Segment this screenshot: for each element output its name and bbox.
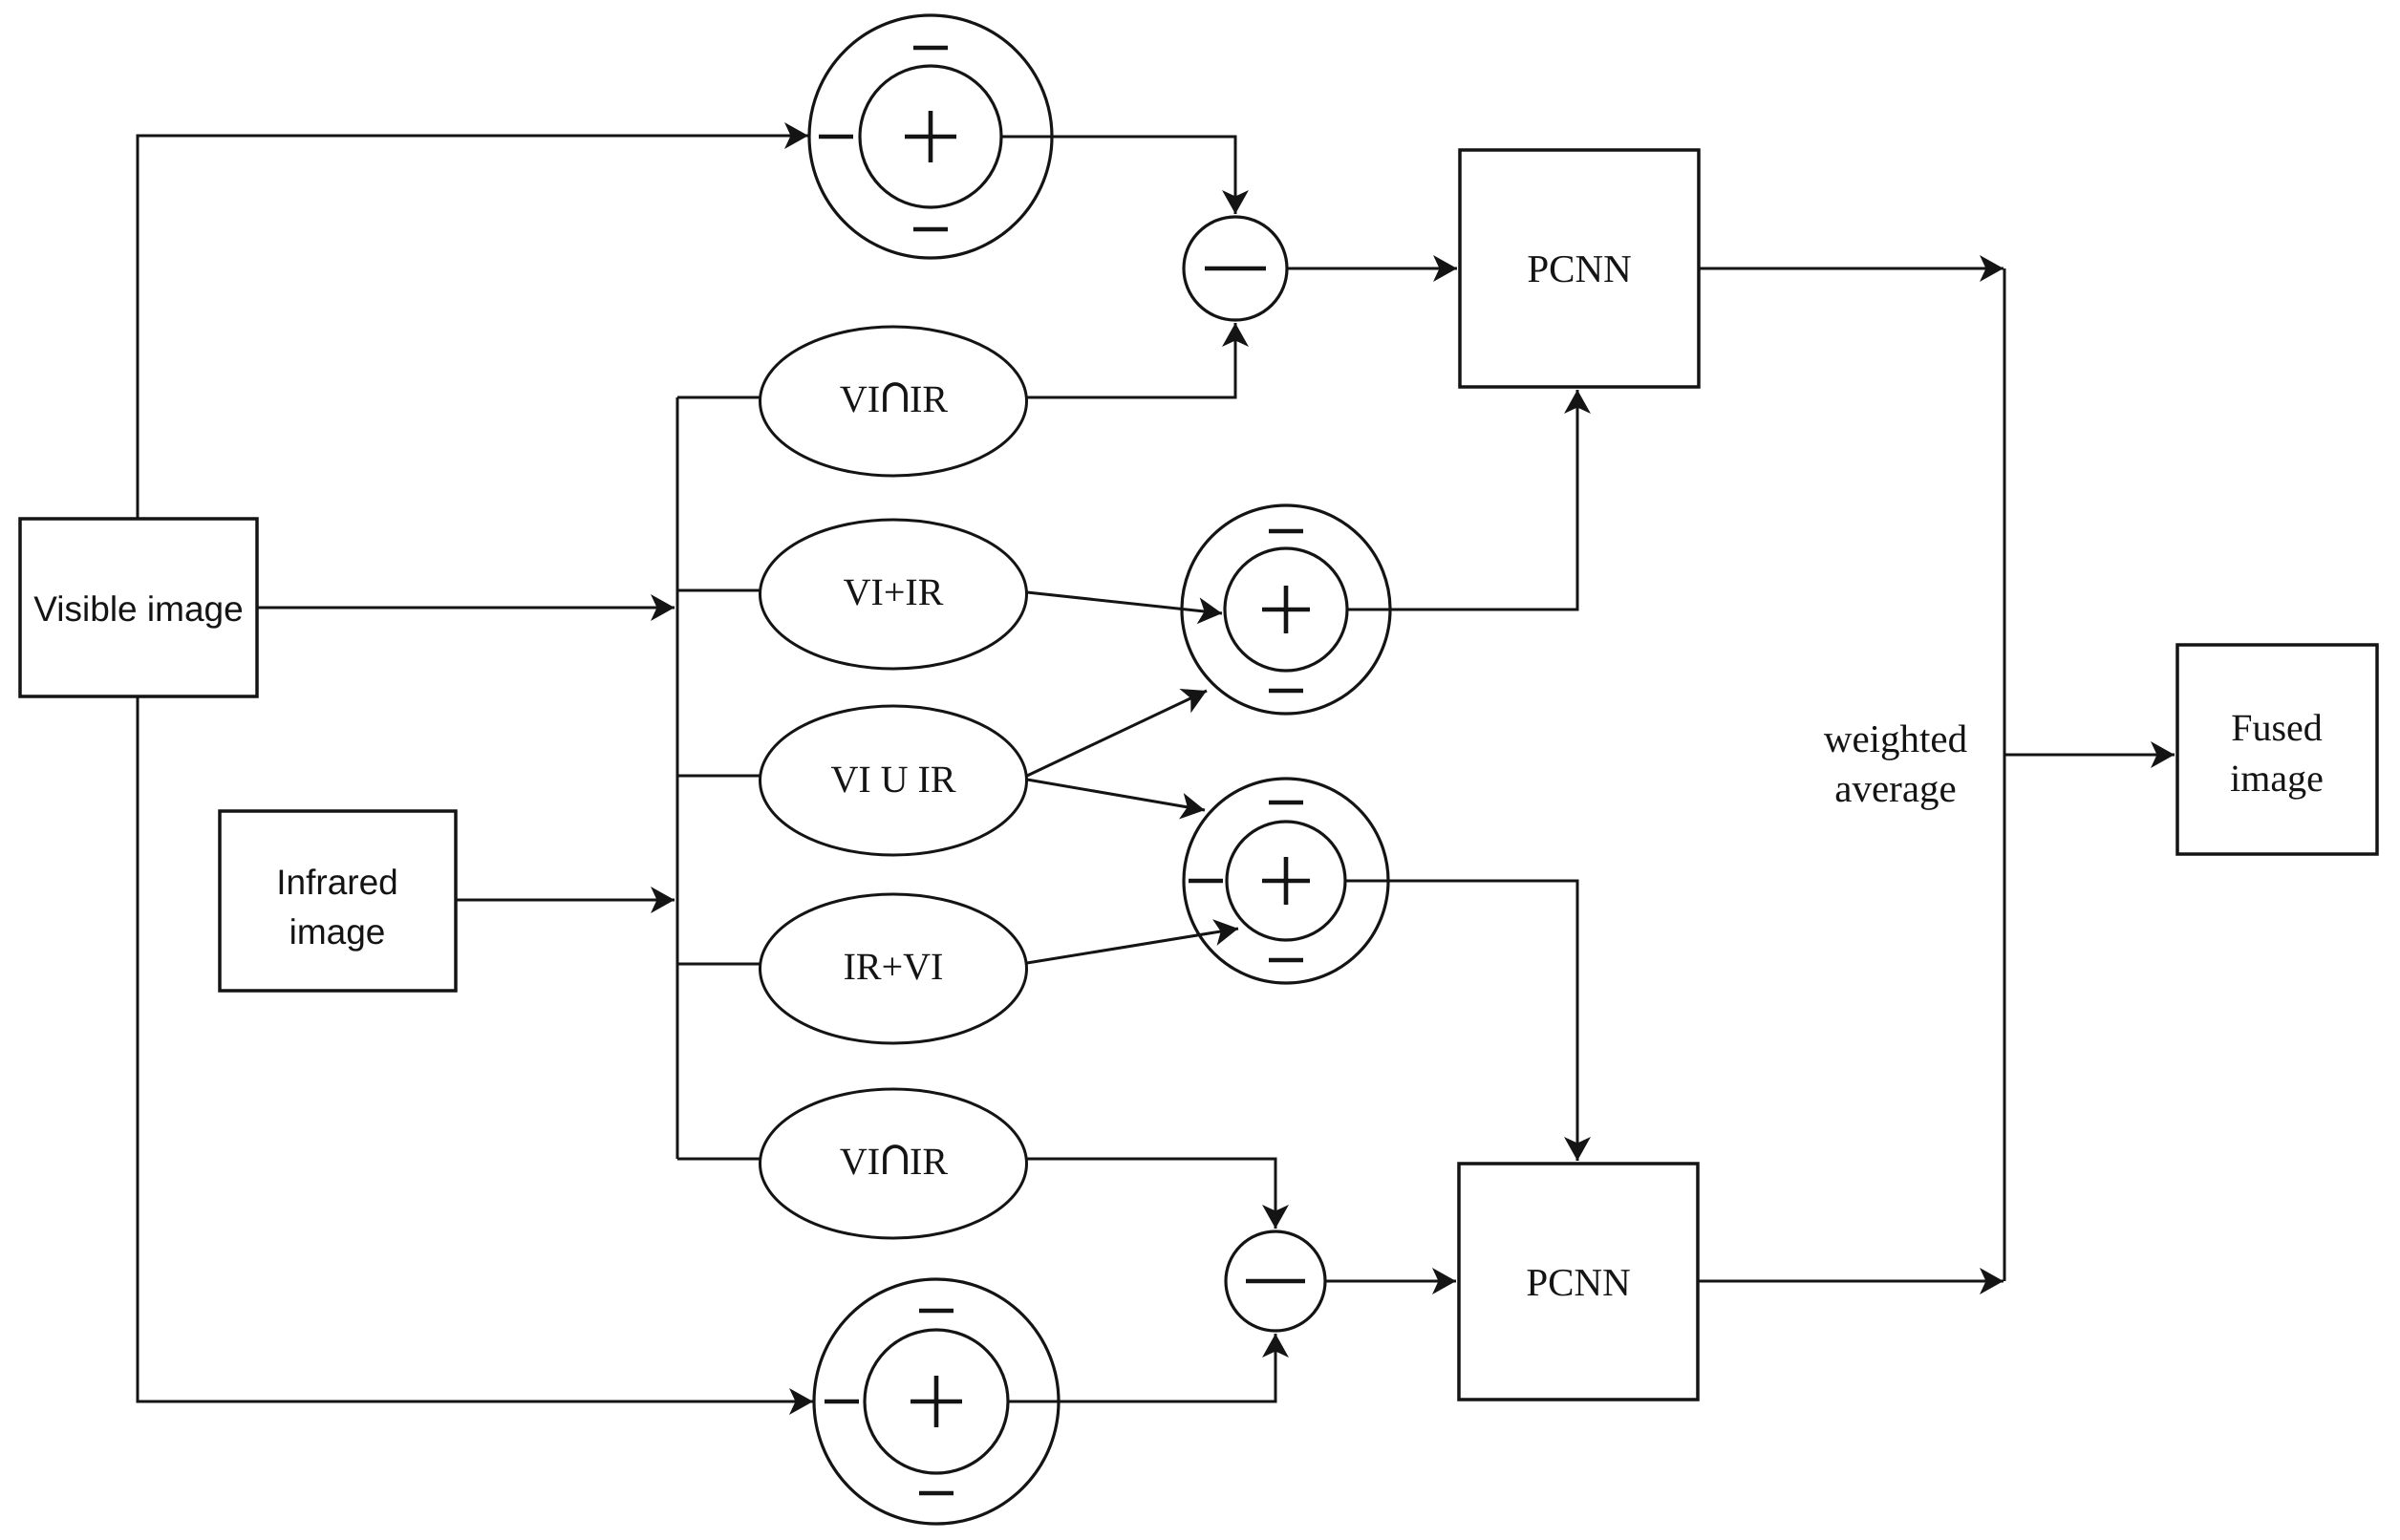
wire: distributor vertical line [676, 397, 679, 1159]
S3 minus top [1269, 801, 1303, 805]
wire: S1 output to subtractor D1 top [1001, 137, 1235, 214]
svg-text:Infrared: Infrared [276, 863, 398, 902]
wire: Visible image bottom branch to summing circle S4 [138, 696, 813, 1401]
svg-text:VI: VI [840, 377, 880, 420]
wire: stub to ellipse E4 [677, 963, 761, 966]
svg-text:PCNN: PCNN [1527, 246, 1631, 290]
ellipse E1 VI∩IR (top) [761, 327, 1027, 476]
S2 inner circle [1225, 548, 1347, 671]
D1 minus sign [1205, 267, 1266, 271]
wire: E4 to S3 [1027, 929, 1238, 963]
svg-text:Visible image: Visible image [33, 589, 243, 629]
wire: E5 to subtractor D2 top [1027, 1159, 1275, 1229]
summing junction S1 (top, VI path) outer circle [809, 15, 1052, 258]
S4 minus bottom [919, 1491, 954, 1496]
S3 plus sign [1262, 857, 1310, 905]
summing junction S4 (bottom, VI path) outer circle [814, 1279, 1059, 1524]
S2 plus sign [1262, 586, 1310, 633]
svg-text:IR+VI: IR+VI [844, 945, 944, 988]
wire: D1 to PCNN U1 [1287, 267, 1457, 270]
svg-text:image: image [2230, 757, 2324, 800]
svg-text:IR: IR [910, 1140, 948, 1183]
S3 minus left [1189, 879, 1223, 884]
summing junction S2 (middle upper) outer circle [1182, 505, 1390, 714]
svg-text:PCNN: PCNN [1526, 1260, 1630, 1304]
D2 minus sign [1246, 1279, 1305, 1284]
summing junction S3 (middle lower) outer circle [1184, 779, 1388, 983]
wire: D2 to PCNN U2 [1325, 1280, 1456, 1283]
wire: stub to ellipse E1 [677, 396, 760, 399]
svg-text:Fused: Fused [2231, 706, 2323, 749]
wire: S3 output to PCNN U2 top [1345, 881, 1577, 1161]
S2 minus bottom [1269, 689, 1303, 694]
S3 minus bottom [1269, 958, 1303, 963]
svg-text:average: average [1834, 766, 1956, 810]
svg-text:VI: VI [840, 1140, 880, 1183]
svg-text:image: image [289, 912, 386, 952]
ellipse E3 VI U IR [761, 706, 1027, 855]
S1 minus left [819, 135, 853, 139]
wire: Visible image top branch to summing circle S1 [138, 136, 808, 519]
PCNN box U1 [1460, 150, 1699, 387]
S4 inner circle [865, 1330, 1008, 1473]
wire: stub to ellipse E2 [677, 589, 761, 592]
ellipse E2 VI+IR [761, 520, 1027, 669]
wire: S4 output to D2 bottom [1008, 1334, 1275, 1401]
subtractor D1 circle (top) [1184, 217, 1287, 320]
S1 minus top [913, 46, 948, 51]
ellipse E4 IR+VI [761, 894, 1027, 1043]
Visible image box [20, 519, 257, 696]
wire: junction vertical line [2004, 268, 2006, 1281]
svg-text:VI U IR: VI U IR [830, 758, 955, 801]
PCNN box U2 [1459, 1164, 1698, 1400]
svg-text:weighted: weighted [1824, 717, 1967, 760]
svg-text:VI+IR: VI+IR [844, 570, 944, 613]
S2 minus top [1269, 529, 1303, 534]
wire: junction to Fused image box [2004, 754, 2175, 757]
wire: E3 to S2 [1027, 691, 1207, 776]
ellipse E5 VI∩IR (bottom) [761, 1089, 1027, 1238]
S1 minus bottom [913, 227, 948, 232]
wire: Visible image to distributor [257, 607, 675, 610]
S4 plus sign [911, 1376, 962, 1427]
S3 inner circle [1227, 822, 1345, 940]
S4 minus left [825, 1400, 859, 1404]
Fused image box [2177, 645, 2377, 854]
wire: E2 to summing circle S2 [1027, 592, 1222, 613]
wire: U1 output to weighted-average junction line [1699, 267, 2004, 270]
wire: S2 output to U1 bottom [1347, 390, 1577, 610]
wire: ellipse VI∩IR (top) to D1 bottom [1027, 323, 1235, 397]
subtractor D2 circle (bottom) [1226, 1231, 1325, 1331]
wire: Infrared image to distributor [456, 899, 675, 902]
S1 inner circle [860, 66, 1001, 207]
S4 minus top [919, 1309, 954, 1314]
wire: stub to ellipse E5 [677, 1158, 761, 1161]
wire: U2 output to junction line [1698, 1280, 2004, 1283]
wire: E3 to summing circle S3 [1027, 780, 1205, 810]
Infrared image box [220, 811, 456, 991]
S1 plus sign [905, 111, 956, 162]
wire: stub to ellipse E3 [677, 775, 761, 778]
svg-text:IR: IR [910, 377, 948, 420]
